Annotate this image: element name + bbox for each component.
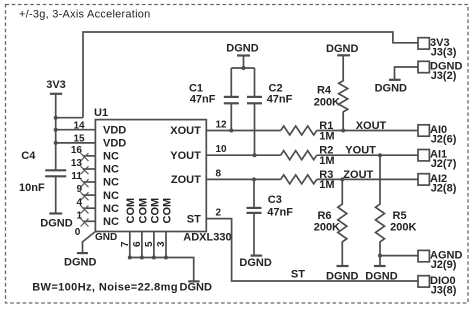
svg-text:16: 16 xyxy=(71,145,83,156)
ground DGND (R6) xyxy=(326,266,358,282)
pin 0 GND diagonal xyxy=(83,232,96,254)
resistor R2 xyxy=(281,145,335,167)
ground DGND (C1 C2 top) xyxy=(226,43,258,69)
svg-text:J2(9): J2(9) xyxy=(431,259,457,271)
svg-text:15: 15 xyxy=(73,134,85,145)
svg-text:1M: 1M xyxy=(319,179,334,191)
svg-text:XOUT: XOUT xyxy=(356,120,387,132)
svg-text:8: 8 xyxy=(216,168,222,179)
svg-text:GND: GND xyxy=(95,232,117,243)
ground DGND (C3) xyxy=(239,256,271,270)
svg-text:5: 5 xyxy=(144,241,155,247)
svg-text:DGND: DGND xyxy=(239,257,271,269)
connector AGND J2(9) xyxy=(418,250,462,272)
resistor R1 xyxy=(281,120,335,142)
svg-text:XOUT: XOUT xyxy=(170,125,201,137)
pin 13 NC xyxy=(83,168,96,170)
wire ZOUT to connector xyxy=(317,178,418,180)
svg-text:13: 13 xyxy=(71,158,83,169)
wire DGND J3(2) to ground xyxy=(395,67,419,80)
wire 3V3 rail to top-right xyxy=(83,32,418,118)
svg-text:J3(3): J3(3) xyxy=(431,46,457,58)
svg-text:+/-3g, 3-Axis Acceleration: +/-3g, 3-Axis Acceleration xyxy=(19,9,151,21)
svg-text:ADXL330: ADXL330 xyxy=(183,232,231,244)
svg-text:200K: 200K xyxy=(314,222,340,234)
capacitor C4 xyxy=(19,150,66,214)
svg-text:200K: 200K xyxy=(390,222,416,234)
svg-text:NC: NC xyxy=(103,190,119,202)
svg-text:NC: NC xyxy=(103,203,119,215)
resistor R4 xyxy=(314,55,348,130)
svg-text:ZOUT: ZOUT xyxy=(343,169,373,181)
pin 11 NC xyxy=(83,181,96,183)
svg-text:1M: 1M xyxy=(319,155,334,167)
connector AI2 J2(8) xyxy=(418,173,457,195)
svg-text:J3(2): J3(2) xyxy=(431,70,457,82)
svg-text:COM: COM xyxy=(149,198,161,224)
svg-text:NC: NC xyxy=(103,177,119,189)
svg-text:NC: NC xyxy=(103,164,119,176)
wire pin15 xyxy=(56,142,96,144)
svg-text:J2(7): J2(7) xyxy=(431,158,457,170)
ground DGND (J3(2)) xyxy=(375,80,407,95)
svg-text:12: 12 xyxy=(216,120,228,131)
connector DGND J3(2) xyxy=(418,61,462,83)
bottom pin 3 xyxy=(165,232,167,258)
wire cap top node xyxy=(231,67,254,69)
connector DIO0 J3(8) xyxy=(418,275,457,297)
svg-text:U1: U1 xyxy=(94,107,108,119)
resistor R6 xyxy=(314,179,347,266)
svg-text:YOUT: YOUT xyxy=(170,150,201,162)
ground DGND (COM bus) xyxy=(180,281,212,293)
pin 1 NC xyxy=(83,220,96,222)
capacitor C2 xyxy=(247,68,293,155)
connector AI1 J2(7) xyxy=(418,149,457,171)
svg-text:2: 2 xyxy=(216,208,222,219)
svg-text:10nF: 10nF xyxy=(19,182,45,194)
svg-text:ST: ST xyxy=(187,213,201,225)
bottom pin 7 xyxy=(129,232,131,258)
svg-text:14: 14 xyxy=(73,120,85,131)
svg-text:R4: R4 xyxy=(317,85,332,97)
svg-text:ST: ST xyxy=(291,269,305,281)
ground DGND (C4) xyxy=(40,214,72,230)
svg-text:47nF: 47nF xyxy=(190,93,216,105)
svg-text:NC: NC xyxy=(103,216,119,228)
wire pin14 xyxy=(56,129,96,131)
connector AI0 J2(6) xyxy=(418,124,457,146)
svg-text:COM: COM xyxy=(161,198,173,224)
svg-text:47nF: 47nF xyxy=(267,93,293,105)
svg-text:3V3: 3V3 xyxy=(46,79,66,91)
capacitor C3 xyxy=(247,179,294,255)
svg-text:1M: 1M xyxy=(319,130,334,142)
svg-text:COM: COM xyxy=(125,198,137,224)
svg-text:3: 3 xyxy=(156,241,167,247)
svg-text:47nF: 47nF xyxy=(267,206,293,218)
ground DGND (R4 top) xyxy=(326,43,358,55)
resistor R3 xyxy=(281,169,335,191)
capacitor C1 xyxy=(189,68,239,131)
svg-text:R6: R6 xyxy=(317,210,331,222)
wire COM bus xyxy=(130,258,194,282)
ground DGND (R5) xyxy=(365,266,397,282)
svg-text:0: 0 xyxy=(75,227,81,238)
svg-text:VDD: VDD xyxy=(103,138,126,150)
svg-text:J3(8): J3(8) xyxy=(431,284,457,296)
node rail junctions xyxy=(54,116,58,120)
svg-text:C3: C3 xyxy=(268,194,282,206)
svg-text:11: 11 xyxy=(71,171,82,182)
svg-text:COM: COM xyxy=(137,198,149,224)
bottom pin 5 xyxy=(153,232,155,258)
wire YOUT to connector xyxy=(317,154,418,156)
svg-text:J2(6): J2(6) xyxy=(431,134,457,146)
svg-text:DGND: DGND xyxy=(375,82,407,94)
pin 16 NC xyxy=(83,155,96,157)
wire XOUT to connector xyxy=(317,130,418,132)
resistor R5 xyxy=(376,155,417,266)
svg-text:6: 6 xyxy=(132,241,143,247)
pin 9 NC xyxy=(83,194,96,196)
svg-text:7: 7 xyxy=(120,241,131,247)
svg-text:YOUT: YOUT xyxy=(345,145,376,157)
svg-text:C4: C4 xyxy=(21,150,36,162)
svg-text:NC: NC xyxy=(103,151,119,163)
svg-text:ZOUT: ZOUT xyxy=(171,174,201,186)
svg-text:10: 10 xyxy=(216,144,228,155)
op IC U1 ADXL330 xyxy=(95,120,206,232)
svg-text:J2(8): J2(8) xyxy=(431,182,457,194)
svg-text:DGND: DGND xyxy=(326,270,358,282)
bottom pin 6 xyxy=(141,232,143,258)
ground DGND (pin0) xyxy=(64,253,96,268)
svg-text:VDD: VDD xyxy=(103,124,126,136)
svg-text:200K: 200K xyxy=(314,97,340,109)
connector 3V3 J3(3) xyxy=(418,37,457,59)
svg-text:DGND: DGND xyxy=(40,218,72,230)
svg-text:R5: R5 xyxy=(393,210,407,222)
pin 4 NC xyxy=(83,207,96,209)
svg-text:DGND: DGND xyxy=(226,43,258,55)
svg-text:DGND: DGND xyxy=(365,270,397,282)
svg-text:DGND: DGND xyxy=(326,43,358,55)
svg-text:BW=100Hz, Noise=22.8mg: BW=100Hz, Noise=22.8mg xyxy=(32,282,178,294)
wire rail joint xyxy=(56,117,83,119)
svg-text:DGND: DGND xyxy=(180,282,212,294)
wire AGND branch xyxy=(380,255,418,257)
svg-text:DGND: DGND xyxy=(64,256,96,268)
power 3V3 xyxy=(46,79,66,170)
